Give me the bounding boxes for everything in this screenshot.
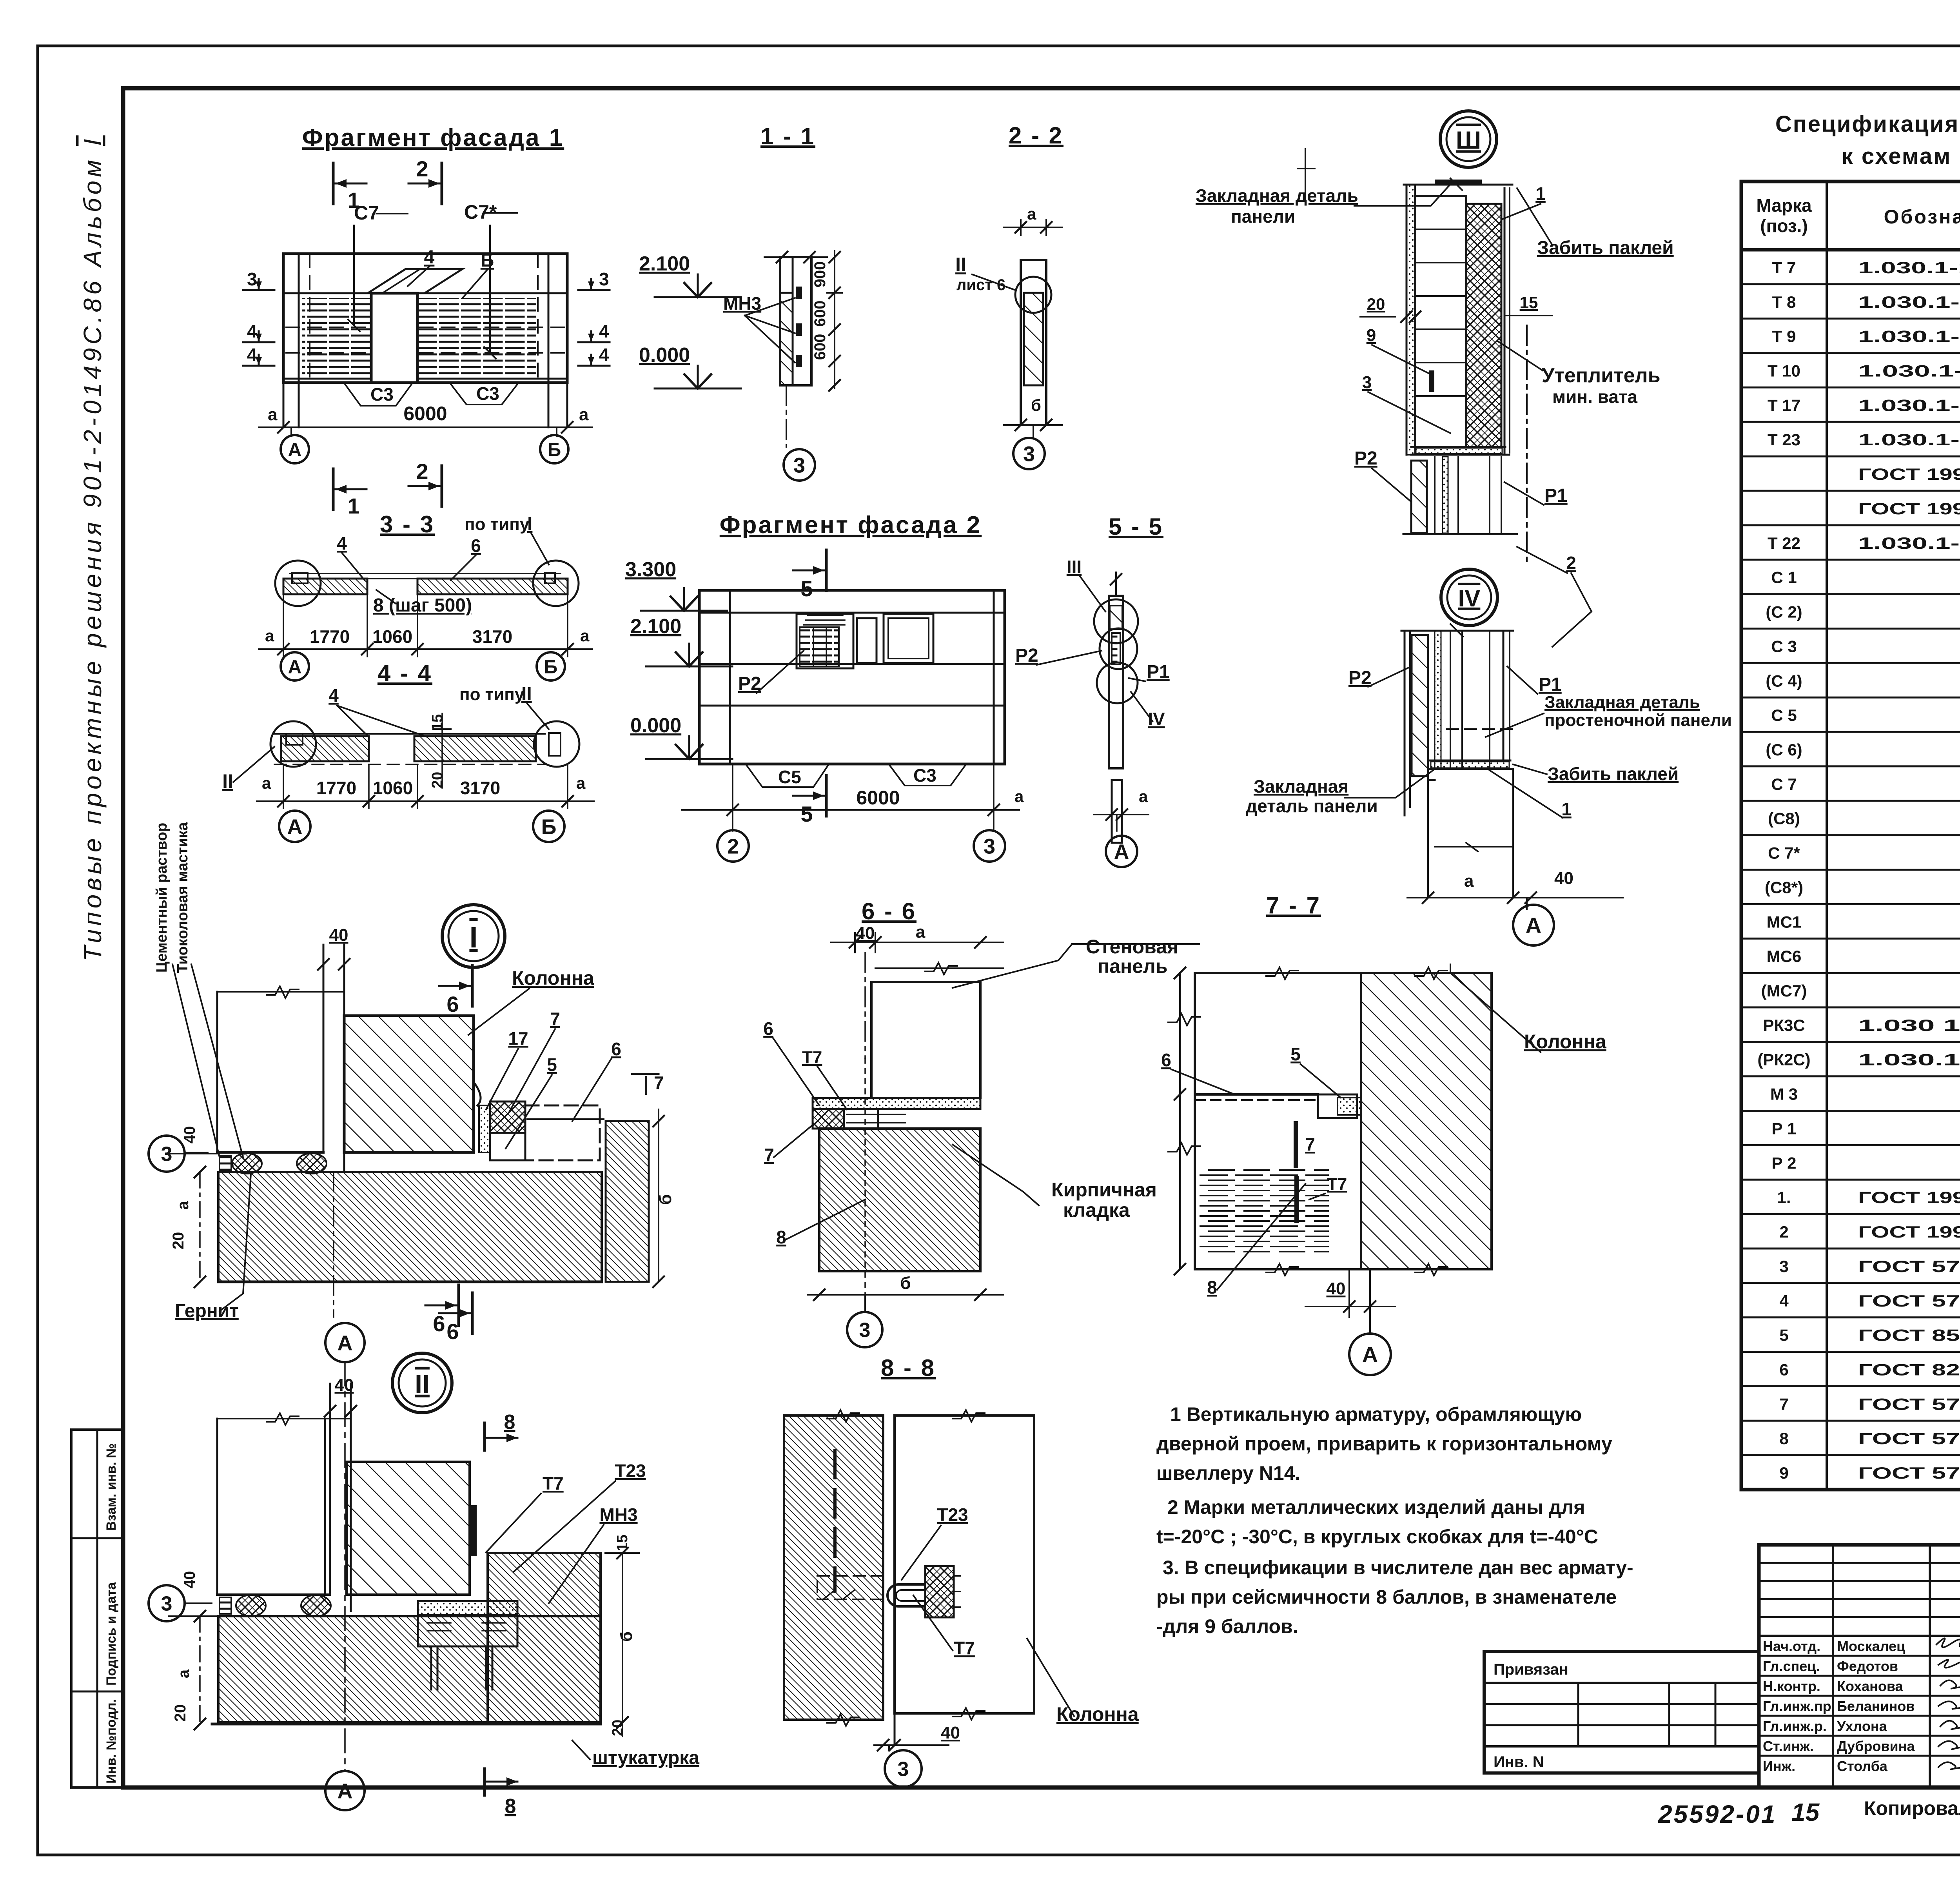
facade 2 section mark 5 top [825, 550, 828, 591]
svg-text:3: 3 [161, 1143, 172, 1166]
svg-text:А: А [1526, 913, 1541, 938]
left margin boxes [71, 1430, 123, 1787]
section 1-1 axis line [786, 385, 787, 447]
svg-text:2: 2 [727, 835, 739, 858]
svg-text:4: 4 [337, 533, 347, 553]
svg-text:1.030.1-1: 1.030.1-1 [1858, 1051, 1960, 1069]
svg-text:Гл.инж.р.: Гл.инж.р. [1763, 1718, 1827, 1734]
svg-text:Спецификация металлических с: Спецификация металлических соединительны… [1775, 111, 1960, 137]
svg-text:3: 3 [599, 269, 609, 289]
svg-text:3.300: 3.300 [625, 558, 676, 581]
svg-text:Забить паклей: Забить паклей [1537, 238, 1674, 258]
svg-text:(С 4): (С 4) [1766, 671, 1802, 690]
svg-text:Федотов: Федотов [1837, 1658, 1898, 1674]
detail III break mark top [1298, 149, 1315, 204]
svg-text:Б: Б [548, 439, 561, 460]
svg-text:3 - 3: 3 - 3 [380, 511, 435, 537]
detail I foundation slab [218, 1172, 602, 1282]
svg-text:8: 8 [505, 1795, 516, 1818]
detail I sec mark 7 right [632, 1073, 659, 1075]
svg-text:а: а [916, 922, 926, 942]
svg-text:4: 4 [1779, 1292, 1789, 1310]
detail III wall assembly [1406, 185, 1408, 455]
svg-text:40: 40 [181, 1126, 198, 1144]
detail II channel bracket [418, 1601, 517, 1615]
svg-text:6: 6 [446, 1319, 459, 1344]
svg-text:Т 9: Т 9 [1772, 327, 1796, 346]
svg-text:а: а [1027, 205, 1036, 223]
detail I axis line down [333, 1172, 334, 1317]
svg-text:МС6: МС6 [1767, 947, 1802, 965]
svg-text:Кирпичная: Кирпичная [1051, 1179, 1157, 1201]
svg-text:ГОСТ 19903-74*: ГОСТ 19903-74* [1858, 1223, 1960, 1241]
svg-text:5 - 5: 5 - 5 [1109, 514, 1163, 540]
svg-text:Р2: Р2 [1348, 668, 1372, 688]
detail II anchor plate on column [470, 1505, 477, 1556]
svg-text:Фрагмент фасада 2: Фрагмент фасада 2 [720, 512, 982, 539]
svg-text:7 - 7: 7 - 7 [1266, 892, 1321, 918]
svg-text:ГОСТ 5781-82*: ГОСТ 5781-82* [1858, 1292, 1960, 1310]
facade 2 C5 C3 callouts [747, 766, 828, 787]
svg-text:а: а [265, 626, 274, 645]
svg-text:Т7: Т7 [1327, 1174, 1347, 1194]
svg-text:8: 8 [776, 1227, 786, 1247]
detail IV dashed mid line [1446, 728, 1513, 730]
svg-text:Гл.спец.: Гл.спец. [1763, 1658, 1820, 1674]
detail II right hatched block [488, 1553, 601, 1722]
svg-text:(С8): (С8) [1768, 809, 1800, 828]
section 5-5 P1 circle [1097, 662, 1138, 703]
svg-text:1.030 1-1: 1.030 1-1 [1858, 1016, 1960, 1034]
detail II left panel [217, 1419, 325, 1595]
svg-text:6: 6 [1779, 1361, 1788, 1379]
svg-text:Н.контр.: Н.контр. [1763, 1678, 1820, 1694]
section 7-7 bracket [1318, 1094, 1357, 1118]
svg-text:2: 2 [1779, 1223, 1788, 1241]
svg-text:1.: 1. [1777, 1188, 1791, 1207]
svg-text:Обозначение: Обозначение [1884, 206, 1960, 228]
svg-text:Т23: Т23 [615, 1461, 646, 1481]
section 7-7 axis A bottom [1369, 1269, 1371, 1334]
title block signatures (scribbles) [1936, 1638, 1960, 1769]
svg-text:МН3: МН3 [723, 293, 761, 314]
svg-text:2: 2 [416, 156, 428, 181]
facade 2 axes 2,3 [732, 764, 733, 831]
svg-text:Т 7: Т 7 [1772, 258, 1796, 277]
notes text [1156, 1403, 1633, 1637]
section 8-8 axis 3 bottom [888, 1745, 890, 1750]
svg-text:Т23: Т23 [937, 1504, 968, 1525]
facade 1 panel joint dashed lines [286, 254, 564, 383]
svg-text:Инж.: Инж. [1763, 1758, 1795, 1774]
svg-text:А: А [288, 439, 302, 460]
detail III dashdot axis [1526, 325, 1528, 564]
svg-text:4: 4 [599, 345, 609, 365]
svg-text:-для 9 баллов.: -для 9 баллов. [1156, 1615, 1298, 1637]
svg-text:15: 15 [1791, 1798, 1820, 1826]
svg-text:Р1: Р1 [1539, 674, 1562, 695]
svg-text:8: 8 [504, 1411, 515, 1434]
svg-text:а: а [268, 405, 278, 424]
svg-text:Закладная: Закладная [1254, 776, 1348, 797]
section 2-2 dim a top [1020, 220, 1022, 235]
svg-text:2.100: 2.100 [639, 252, 690, 275]
svg-text:20: 20 [429, 772, 446, 788]
title block signature names [1763, 1638, 1915, 1774]
svg-text:(С 6): (С 6) [1766, 740, 1802, 759]
svg-text:Т7: Т7 [802, 1048, 822, 1067]
svg-text:Москалец: Москалец [1837, 1638, 1905, 1654]
svg-text:Забить паклей: Забить паклей [1548, 764, 1679, 784]
svg-text:3: 3 [247, 269, 257, 289]
svg-text:Ухлона: Ухлона [1837, 1718, 1887, 1734]
facade 1 canopy parallelogram [368, 269, 463, 293]
svg-text:5: 5 [1779, 1326, 1788, 1345]
svg-text:а: а [1139, 787, 1148, 806]
section 6-6 wall panel [871, 982, 980, 1098]
svg-text:III: III [1067, 557, 1082, 577]
svg-text:1770: 1770 [310, 626, 350, 647]
svg-text:Гл.инж.пр: Гл.инж.пр [1763, 1698, 1831, 1714]
detail III top plate [1435, 180, 1482, 185]
svg-text:1060: 1060 [373, 778, 413, 798]
svg-text:9: 9 [1367, 326, 1376, 345]
detail I ground level line [169, 1153, 220, 1154]
svg-text:МН3: МН3 [599, 1504, 637, 1525]
svg-text:а: а [1014, 787, 1024, 806]
svg-text:2 Марки металлических изде: 2 Марки металлических изделий даны для [1167, 1496, 1585, 1518]
detail II hatched panel [347, 1462, 470, 1595]
section 2-2 axis 3 [1033, 425, 1034, 437]
facade 2 louvre grille P2 [797, 614, 853, 668]
svg-text:1060: 1060 [372, 626, 412, 647]
svg-text:3170: 3170 [460, 778, 500, 798]
section 8-8 top breaks [827, 1410, 859, 1422]
svg-text:С7: С7 [354, 202, 379, 224]
svg-text:(МС7): (МС7) [1761, 982, 1807, 1000]
svg-text:6: 6 [1161, 1050, 1171, 1070]
detail IV bottom shoe [1428, 760, 1512, 769]
svg-text:4 - 4: 4 - 4 [377, 660, 432, 686]
section 3-3 callout I leader [531, 533, 549, 564]
svg-text:1.030.1-1, В 4-1: 1.030.1-1, В 4-1 [1858, 430, 1960, 449]
svg-text:Р 2: Р 2 [1771, 1154, 1796, 1172]
svg-text:900: 900 [811, 261, 829, 288]
section 1-1 wall [780, 257, 811, 385]
svg-text:С 5: С 5 [1771, 706, 1797, 724]
svg-text:(С8*): (С8*) [1765, 878, 1803, 896]
svg-text:7: 7 [1305, 1134, 1315, 1154]
section 8-8 U loop [887, 1584, 925, 1606]
svg-text:40: 40 [329, 926, 348, 945]
svg-text:3: 3 [898, 1758, 909, 1781]
svg-text:Закладная деталь: Закладная деталь [1196, 185, 1358, 206]
svg-text:Копировал :: Копировал : [1864, 1797, 1960, 1819]
svg-text:ГОСТ 5781-82*: ГОСТ 5781-82* [1858, 1257, 1960, 1276]
section 5-5 axis A [1116, 815, 1118, 831]
svg-text:25592-01: 25592-01 [1658, 1800, 1777, 1828]
svg-text:1 - 1: 1 - 1 [760, 123, 815, 149]
detail II foundation slab [218, 1616, 601, 1722]
svg-text:1.030.1-1, Б4-1: 1.030.1-1, Б4-1 [1858, 362, 1960, 380]
section 3-3 slab band [290, 573, 561, 574]
svg-text:ГОСТ 5781-82*: ГОСТ 5781-82* [1858, 1395, 1960, 1413]
svg-text:Р 1: Р 1 [1771, 1120, 1796, 1138]
section 2-2 wall [1021, 260, 1046, 425]
svg-text:Взам. инв. №: Взам. инв. № [104, 1443, 119, 1531]
svg-text:II: II [955, 254, 966, 276]
svg-text:1: 1 [347, 494, 359, 518]
svg-text:б: б [900, 1274, 911, 1293]
svg-text:3170: 3170 [472, 626, 512, 647]
svg-text:Т 8: Т 8 [1772, 293, 1796, 311]
facade 1 right cut marks 3,4,4 [578, 289, 610, 291]
svg-text:Стеновая: Стеновая [1086, 936, 1178, 958]
svg-text:С3: С3 [370, 384, 394, 405]
svg-text:1.030.1-1, В 4-1: 1.030.1-1, В 4-1 [1858, 534, 1960, 552]
svg-text:1770: 1770 [316, 778, 356, 798]
svg-text:панели: панели [1231, 206, 1295, 227]
facade 1 columns below [283, 383, 285, 427]
svg-text:6000: 6000 [856, 787, 900, 809]
svg-text:ры при сейсмичности 8 балло: ры при сейсмичности 8 баллов, в знаменат… [1156, 1586, 1617, 1608]
svg-text:2: 2 [416, 459, 428, 484]
section 3-3 dims [259, 648, 592, 650]
section 8-8 column white [895, 1415, 1034, 1713]
svg-text:швеллеру N14.: швеллеру N14. [1156, 1462, 1300, 1484]
spec table header text [1756, 195, 1960, 236]
section 6-6 panel dim line [875, 967, 1004, 969]
spec table grid [1741, 181, 1960, 1490]
detail I dim line top panel [217, 991, 344, 993]
detail II marker [392, 1353, 452, 1413]
svg-text:Нач.отд.: Нач.отд. [1763, 1638, 1820, 1654]
svg-text:б: б [617, 1631, 635, 1642]
facade 1 C3 callouts [345, 384, 412, 406]
svg-text:Инв. №подл.: Инв. №подл. [104, 1699, 119, 1784]
svg-text:А: А [287, 815, 303, 838]
svg-text:6: 6 [471, 535, 481, 556]
section 7-7 top breaks [1266, 967, 1298, 979]
svg-text:40: 40 [181, 1571, 198, 1589]
detail II panel dim line [217, 1418, 351, 1419]
section 8-8 anchor plate [925, 1566, 954, 1617]
svg-text:С 1: С 1 [1771, 568, 1797, 587]
svg-text:а: а [1464, 871, 1474, 891]
detail IV wall assembly [1404, 631, 1406, 815]
svg-text:(С 2): (С 2) [1766, 603, 1802, 621]
facade 1 wall hatch panels [302, 298, 370, 378]
facade 1 axis Б [556, 427, 557, 436]
svg-text:3: 3 [161, 1593, 172, 1615]
svg-text:Ст.инж.: Ст.инж. [1763, 1738, 1814, 1754]
section 7-7 column hatched [1361, 973, 1492, 1269]
svg-text:2: 2 [1566, 553, 1576, 573]
facade 2 dim 6000 [682, 809, 1019, 811]
svg-text:дверной проем, приварить к г: дверной проем, приварить к горизонтально… [1156, 1433, 1612, 1455]
svg-text:Т 23: Т 23 [1768, 430, 1800, 449]
svg-text:ГОСТ 5781-82*: ГОСТ 5781-82* [1858, 1429, 1960, 1448]
section 7-7 brick fill lower [1200, 1168, 1329, 1254]
detail I panel (left white) [217, 992, 323, 1152]
svg-text:по типу: по типу [465, 515, 530, 534]
detail III bottom channel [1411, 447, 1509, 455]
svg-text:4: 4 [424, 247, 435, 268]
svg-text:2 - 2: 2 - 2 [1009, 122, 1063, 149]
svg-text:4: 4 [247, 321, 257, 341]
svg-text:Б: Б [541, 815, 557, 838]
detail II ground line [169, 1615, 217, 1617]
svg-text:7: 7 [1779, 1395, 1788, 1413]
section 4-4 end detail circles [270, 721, 316, 767]
svg-text:б: б [656, 1194, 675, 1205]
svg-text:А: А [288, 657, 302, 677]
section 2-2 detail circle II [1015, 277, 1051, 313]
facade 1 axis A [290, 427, 292, 436]
svg-text:ГОСТ 8509-72*: ГОСТ 8509-72* [1858, 1326, 1960, 1345]
facade 1 section marks bottom [332, 469, 335, 510]
svg-text:по типу: по типу [459, 685, 524, 704]
section mark 6 near A [457, 1285, 460, 1326]
detail I dim col right [658, 1109, 659, 1282]
svg-text:6: 6 [763, 1018, 773, 1039]
svg-text:Привязан: Привязан [1494, 1661, 1568, 1678]
detail I sealant blobs [220, 1156, 231, 1171]
svg-text:5: 5 [547, 1054, 557, 1075]
section 5-5 wall strip [1109, 596, 1123, 768]
svg-text:М 3: М 3 [1770, 1085, 1798, 1103]
svg-text:кладка: кладка [1063, 1199, 1130, 1221]
facade 2 window 1 [857, 618, 877, 663]
svg-text:Утеплитель: Утеплитель [1542, 364, 1661, 387]
svg-text:С 7*: С 7* [1768, 844, 1800, 862]
detail I wall stem [323, 945, 482, 1172]
svg-text:4: 4 [328, 685, 339, 706]
facade 2 window 2 [884, 614, 933, 663]
svg-text:17: 17 [508, 1028, 528, 1049]
svg-text:I: I [527, 514, 532, 534]
svg-text:ГОСТ 19903-74*: ГОСТ 19903-74* [1858, 499, 1960, 518]
svg-text:3: 3 [1023, 442, 1035, 466]
svg-text:3: 3 [1362, 373, 1372, 392]
section 8-8 dashed rebar [833, 1450, 837, 1591]
svg-text:3: 3 [1779, 1257, 1788, 1276]
svg-text:4: 4 [247, 345, 257, 365]
svg-text:мин. вата: мин. вата [1552, 387, 1637, 407]
svg-text:а: а [174, 1201, 192, 1210]
section 8-8 dashed tie left [817, 1576, 883, 1599]
detail II wall stem [330, 1384, 351, 1611]
svg-text:С3: С3 [913, 765, 936, 786]
svg-text:Фрагмент фасада 1: Фрагмент фасада 1 [302, 124, 564, 151]
detail I axis 3 [184, 1152, 208, 1153]
svg-text:б: б [1031, 396, 1041, 414]
svg-text:1: 1 [1561, 799, 1572, 819]
svg-text:15: 15 [429, 714, 446, 731]
section 7-7 panel left [1195, 973, 1361, 1269]
facade 1 section marks top [332, 163, 335, 204]
svg-text:деталь панели: деталь панели [1246, 796, 1378, 816]
svg-text:3: 3 [984, 835, 995, 858]
svg-text:(поз.): (поз.) [1760, 216, 1808, 236]
detail III legs below [1411, 461, 1427, 533]
svg-text:Марка: Марка [1756, 195, 1812, 216]
section 8-8 left hatched block [784, 1415, 883, 1720]
svg-text:600: 600 [811, 334, 829, 360]
svg-text:а: а [262, 774, 271, 792]
detail I sec mark 6 bottom [471, 1293, 474, 1334]
svg-text:7: 7 [764, 1145, 774, 1165]
detail IV axis circle A [1526, 898, 1528, 909]
svg-text:к схемам расположения элем: к схемам расположения элементов стен [1842, 143, 1960, 169]
detail IV marker [1441, 569, 1497, 626]
section 1-1 dim 900/600/600 [827, 292, 842, 294]
section 8-8 middle strip [883, 1415, 895, 1744]
facade 1 dim 6000 [259, 426, 592, 428]
section 7-7 left dim col [1179, 973, 1181, 1269]
svg-text:а: а [580, 626, 590, 645]
svg-text:А: А [338, 1779, 353, 1803]
svg-text:IV: IV [1458, 585, 1481, 612]
svg-text:а: а [576, 774, 586, 792]
detail I marker [442, 905, 505, 967]
svg-text:II: II [415, 1369, 430, 1399]
svg-text:Тиоколовая мастика: Тиоколовая мастика [174, 822, 191, 973]
svg-text:3: 3 [859, 1319, 871, 1342]
svg-text:6000: 6000 [403, 403, 447, 425]
svg-text:0.000: 0.000 [639, 344, 690, 367]
detail III marker [1440, 111, 1497, 167]
section 6-6 left bracket [813, 1109, 844, 1129]
facade 2 body [699, 590, 1005, 764]
section 6-6 masonry [819, 1129, 980, 1271]
detail II sec mark 8 bottom [483, 1769, 486, 1795]
detail IV lower wall lines [1404, 815, 1405, 890]
svg-text:Коханова: Коханова [1837, 1678, 1904, 1694]
svg-text:0.000: 0.000 [630, 714, 681, 737]
svg-text:А: А [338, 1331, 353, 1355]
svg-text:1.030.1-1, 8, 4-1: 1.030.1-1, 8, 4-1 [1858, 258, 1960, 277]
svg-text:1.030.1-1, В 4-1: 1.030.1-1, В 4-1 [1858, 327, 1960, 346]
detail II sec mark 8 top [483, 1423, 486, 1450]
svg-text:8 - 8: 8 - 8 [881, 1355, 936, 1381]
detail I column hatched [344, 1016, 474, 1152]
svg-text:9: 9 [1779, 1464, 1788, 1482]
svg-text:20: 20 [1367, 295, 1385, 313]
section 3-3 end detail circles [275, 561, 321, 606]
detail I sec mark 6 top [471, 965, 474, 1006]
section 6-6 stone band [813, 1098, 980, 1109]
svg-text:5: 5 [1290, 1044, 1301, 1064]
spec table rows [1757, 258, 1960, 1482]
svg-text:(РК2С): (РК2С) [1757, 1051, 1810, 1069]
detail II axis 3 [184, 1602, 212, 1604]
svg-text:панель: панель [1098, 955, 1168, 977]
detail II axis A bottom [325, 1771, 365, 1810]
svg-text:II: II [222, 770, 233, 792]
svg-text:6: 6 [611, 1039, 621, 1059]
svg-text:5: 5 [800, 576, 813, 601]
svg-text:4: 4 [599, 321, 609, 341]
svg-text:Р1: Р1 [1544, 485, 1568, 506]
facade 1 elevation body [283, 254, 567, 383]
svg-text:Подпись и дата: Подпись и дата [104, 1582, 119, 1686]
detail I bracket assembly [479, 1105, 490, 1152]
privyazan table [1484, 1651, 1759, 1773]
section 1-1 МН3 plates [796, 287, 802, 299]
svg-text:Т 22: Т 22 [1768, 534, 1800, 552]
bottom margin texts [1658, 1795, 1960, 1828]
